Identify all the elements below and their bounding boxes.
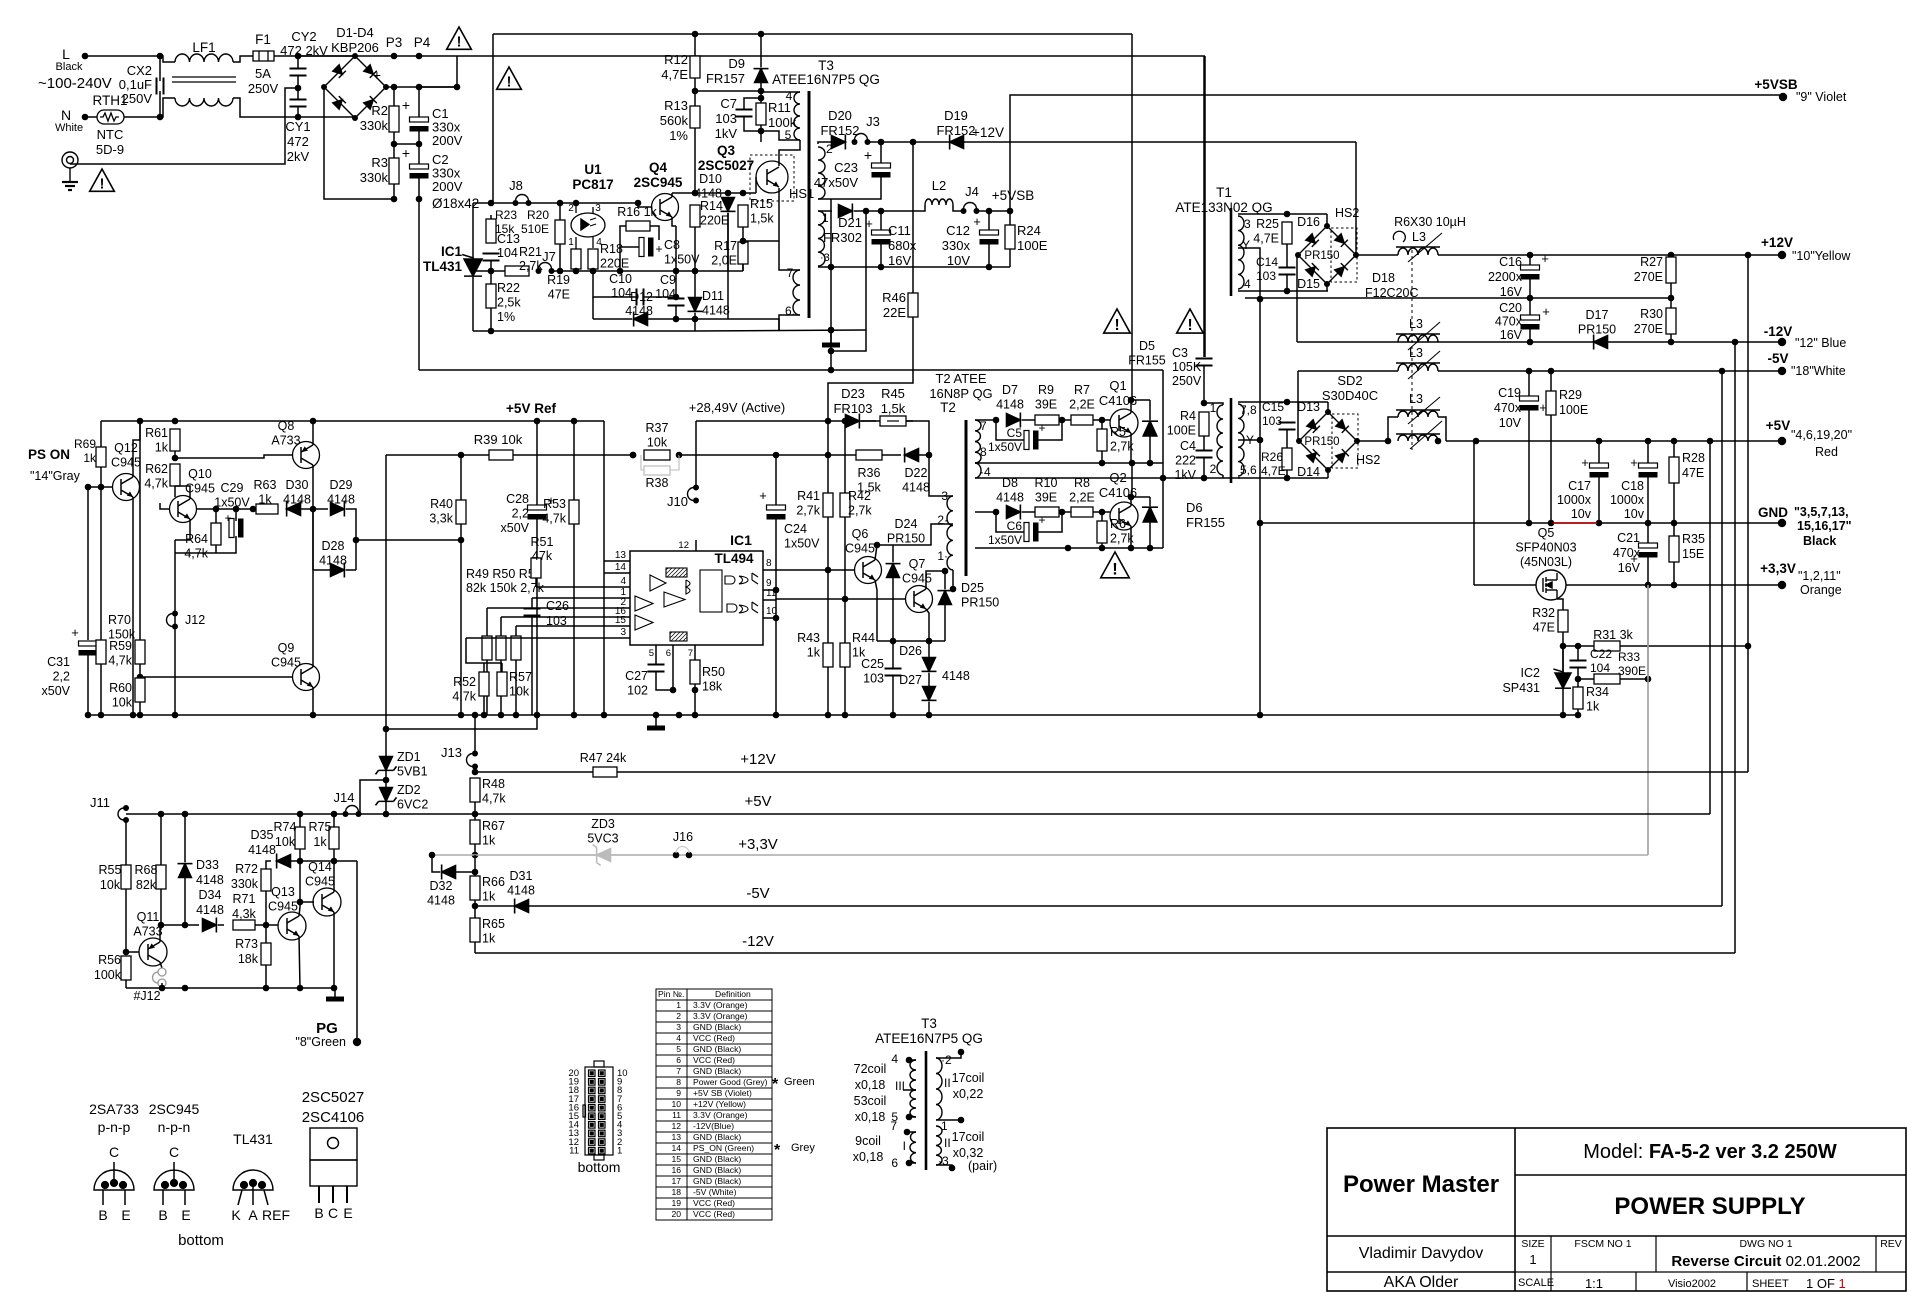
L3 arrow e [1410, 421, 1442, 449]
wire r73 [265, 925, 267, 943]
wire Q3 e to rail [743, 240, 779, 242]
wire q9 base [140, 676, 293, 678]
wire c16 [1529, 255, 1531, 265]
transistor Q11 [139, 938, 167, 966]
node PG out [353, 1038, 361, 1046]
wire c5 [996, 420, 1024, 440]
wire rail478 [975, 477, 1240, 479]
ground bar tl494 [647, 726, 665, 731]
wire vert 1205 [1204, 56, 1206, 357]
wire -5 corner [1721, 371, 1723, 906]
svg-text:·4: ·4 [980, 465, 991, 479]
lead tl431 ref [264, 1190, 268, 1205]
svg-text:C27102: C27102 [625, 669, 648, 698]
T3 detail winding II upper [936, 1058, 942, 1120]
svg-text:!: ! [1114, 317, 1119, 334]
fuse F1 [253, 51, 274, 61]
wire r50b [500, 660, 502, 715]
resistor R51b [531, 558, 541, 578]
wire R19 [575, 248, 577, 249]
wire r35b [1673, 562, 1675, 585]
svg-text:+: + [1038, 421, 1045, 435]
wire sec2 bot [818, 198, 831, 200]
wire r28 [1673, 441, 1675, 457]
lead 2sc945 e [184, 1190, 186, 1205]
capacitor C1 [410, 117, 429, 132]
wire r27b [1670, 283, 1672, 298]
svg-text:J12: J12 [185, 613, 205, 627]
wire c3b [1203, 366, 1205, 403]
jumper J11 [118, 805, 129, 823]
wire c17b [1598, 477, 1600, 523]
svg-text:GND (Black): GND (Black) [693, 1176, 741, 1186]
wire c29 v2 [216, 536, 236, 553]
wire d23 out [861, 420, 876, 422]
transistor Q14 [313, 888, 341, 916]
junction r33 out [1645, 676, 1652, 683]
wire r48b [474, 802, 476, 814]
svg-text:GND (Black): GND (Black) [693, 1066, 741, 1076]
resistor R66 [470, 876, 480, 900]
svg-text:+5V SB (Violet): +5V SB (Violet) [693, 1088, 752, 1098]
resistor R51 [511, 636, 521, 660]
junction q6 c [874, 542, 881, 549]
pin 3 stub [617, 637, 630, 639]
transformer T1 core lower [1230, 398, 1233, 483]
L3 arrow d [1408, 397, 1440, 424]
heatsink HS2 dashed lower [1332, 414, 1358, 468]
transistor Q7 [906, 586, 933, 613]
wire Q3 collector [779, 140, 800, 166]
svg-text:Visio2002: Visio2002 [1668, 1278, 1716, 1290]
diode D12 [634, 312, 648, 327]
earth ground [62, 152, 78, 190]
wire r42b [844, 517, 846, 599]
resistor R17 [738, 242, 748, 264]
wire r42 [844, 421, 846, 493]
pin 4 stub [617, 586, 630, 588]
transistor Q3 [756, 161, 788, 193]
svg-text:R5710k: R5710k [509, 670, 532, 699]
wire ch1 [975, 419, 996, 421]
wire R18b [592, 269, 594, 271]
wire gnd ext [1561, 714, 1578, 716]
wire base bus [672, 192, 756, 194]
wire r64 [215, 509, 217, 523]
svg-text:20: 20 [671, 1209, 681, 1219]
svg-text:Black: Black [1803, 534, 1836, 548]
svg-text:7: 7 [890, 1119, 897, 1133]
wire CX2 vert [159, 56, 161, 81]
svg-text:"9" Violet: "9" Violet [1796, 90, 1847, 104]
wire +5 corner [1709, 441, 1711, 814]
svg-text:11: 11 [569, 1145, 579, 1156]
wire bridge right [386, 86, 457, 88]
resistor R55 [121, 865, 131, 889]
wire CY2 [297, 56, 299, 68]
svg-text:+: + [402, 97, 410, 113]
wire c27 [655, 658, 657, 664]
wire C2 to primary return [418, 199, 420, 370]
wire Q4 base wire [638, 203, 652, 207]
svg-text:C: C [328, 1205, 338, 1221]
capacitor C20 [1521, 315, 1540, 330]
wire c31 wire [87, 487, 89, 640]
wire d32 left [432, 855, 440, 872]
capacitor C14 [1279, 268, 1296, 275]
wire r6b [1101, 543, 1103, 548]
wire R20 [559, 203, 561, 220]
wire y2 mid [1238, 439, 1260, 441]
junction bb [488, 328, 495, 335]
transformer T1 sec upper [1238, 216, 1244, 289]
pin 7 stub bottom [694, 645, 696, 658]
svg-text:#J12: #J12 [133, 989, 160, 1003]
junction r68 top [158, 811, 338, 818]
wire mid rail2 [552, 270, 676, 272]
wire r44 [844, 599, 846, 643]
package 2SC5027 TO220 [310, 1128, 357, 1186]
junction d27 [890, 712, 933, 719]
resistor R40 [456, 500, 466, 524]
pin 16 stub [617, 616, 630, 618]
resistor R18 [588, 249, 598, 269]
wire R14 bot [694, 227, 696, 271]
wire node91 [695, 90, 761, 92]
svg-text:NTC5D-9: NTC5D-9 [96, 127, 124, 157]
junction r74b [297, 899, 304, 906]
svg-text:R6882k: R6882k [135, 863, 158, 892]
wire r28b [1673, 483, 1675, 523]
svg-text:R3710k: R3710k [646, 421, 669, 450]
svg-text:R4622E: R4622E [882, 290, 906, 320]
junction row509 [213, 506, 257, 513]
capacitor C5 [1024, 431, 1039, 450]
T3 detail core [925, 1051, 928, 1170]
svg-text:R264,7E: R264,7E [1261, 450, 1286, 478]
svg-text:C: C [169, 1144, 179, 1160]
svg-text:~100-240V: ~100-240V [38, 75, 112, 92]
svg-text:-12V: -12V [742, 933, 774, 950]
shunt regulator IC2 SP431 [1552, 669, 1571, 688]
junction 831 [828, 264, 835, 374]
wire r69b [100, 467, 102, 487]
svg-text:*: * [772, 1076, 779, 1093]
wire rail455 [386, 454, 489, 456]
wire D12 rail [593, 318, 632, 320]
resistor R46 [908, 293, 918, 317]
resistor R75 [329, 827, 339, 849]
svg-text:D1-D4KBP206: D1-D4KBP206 [331, 25, 379, 55]
inductor L3 +5v upper [1398, 411, 1438, 417]
wire d27b [928, 702, 930, 715]
svg-text:1: 1 [1210, 401, 1217, 415]
svg-text:R5147k: R5147k [531, 535, 554, 563]
resistor R57 [497, 672, 507, 696]
wire c22b [1577, 668, 1579, 679]
wire q12 e [132, 497, 134, 715]
svg-text:L3: L3 [1412, 230, 1426, 244]
svg-text:L3: L3 [1409, 346, 1423, 360]
junction -12v [1527, 339, 1739, 346]
svg-text:IC1: IC1 [730, 532, 752, 548]
junction CY mid [295, 85, 302, 92]
wire R24b [1009, 249, 1011, 267]
resistor R67 [470, 820, 480, 844]
wire ch2b [1022, 511, 1035, 513]
wire D9b [760, 83, 762, 98]
resistor R10 [1035, 507, 1059, 517]
wire rail455 c [679, 454, 856, 456]
transistor Q2 [1110, 502, 1138, 530]
T3d pin7 [904, 1129, 911, 1136]
junction ref rail [137, 418, 317, 425]
wire R16 right [650, 226, 659, 240]
capacitor C18 [1639, 463, 1658, 478]
svg-text:J10: J10 [667, 494, 688, 509]
resistor R42 [840, 493, 850, 517]
wire j13 up [474, 715, 476, 753]
core LF1 [172, 76, 236, 78]
lead 2sa733 b [102, 1190, 104, 1205]
node L input [82, 53, 89, 60]
svg-text:+: + [864, 147, 872, 163]
wire C8 left [620, 226, 639, 247]
wire R3 bot [393, 184, 395, 199]
svg-text:12: 12 [678, 540, 689, 551]
lead tl431 a [252, 1183, 254, 1205]
wire q2c link [1131, 463, 1133, 497]
jumper #J12 grey [153, 968, 167, 987]
svg-text:T3: T3 [921, 1016, 937, 1031]
wire c5b [1038, 420, 1062, 440]
svg-text:J7: J7 [542, 249, 556, 264]
t3d III tap [903, 1089, 916, 1091]
svg-text:R361,5k: R361,5k [857, 466, 881, 495]
diode D5 [1142, 421, 1158, 436]
diode D22 [905, 448, 919, 463]
svg-text:!: ! [1112, 561, 1118, 579]
junction zd12 [383, 777, 390, 784]
wire Q3 emitter [778, 188, 780, 241]
wire D10 bot [727, 213, 729, 271]
svg-text:7,8: 7,8 [1240, 403, 1257, 417]
svg-text:L: L [62, 46, 70, 62]
svg-text:!: ! [507, 75, 512, 91]
svg-text:82k 150k 2,7k: 82k 150k 2,7k [466, 581, 545, 595]
junction 3v3 [1645, 582, 1678, 589]
wire r29b [1550, 415, 1552, 523]
resistor R59 [135, 640, 145, 664]
wire zd1 zd2 [385, 771, 387, 788]
connector pin table [656, 989, 772, 1220]
wire c20 [1529, 298, 1531, 315]
junction D9 bottom [758, 88, 765, 102]
resistor R33 [1594, 674, 1620, 684]
diode D30 [287, 502, 301, 517]
svg-text:!: ! [1187, 317, 1192, 334]
svg-text:VCC (Red): VCC (Red) [693, 1198, 735, 1208]
svg-text:1·: 1· [937, 549, 948, 563]
svg-text:R72330k: R72330k [231, 862, 259, 891]
junction r41 [825, 418, 832, 425]
wire r4 c4 [1203, 436, 1205, 450]
wire c18 [1647, 441, 1649, 463]
svg-text:L2: L2 [932, 178, 946, 193]
wire pin12 vert2 [695, 421, 697, 487]
red wire segment [1553, 522, 1597, 524]
resistor R37 [644, 450, 670, 460]
resistor R9 [1035, 415, 1059, 425]
wire -5v bottom rail [475, 905, 1722, 907]
diode D32 [442, 865, 456, 880]
wire r68 top [160, 814, 162, 865]
svg-text:ATEE16N7P5 QG: ATEE16N7P5 QG [875, 1031, 983, 1046]
wire j11 down [125, 820, 127, 952]
wire CY2 b [297, 76, 299, 99]
transformer T1 sec lower coil [1238, 404, 1244, 476]
wire q10 e2 [174, 540, 176, 613]
svg-text:C25103: C25103 [861, 657, 884, 686]
wire c24 [775, 455, 777, 505]
wire r36 out [882, 454, 901, 456]
wire e rail ext [675, 226, 677, 271]
svg-text:13: 13 [671, 1132, 681, 1142]
wire pin14b [604, 572, 617, 574]
capacitor C12 [980, 230, 999, 245]
svg-text:I: I [903, 1139, 906, 1153]
wire block bottom [473, 330, 695, 332]
resistor R29 [1546, 391, 1556, 415]
wire r25 c14 [1286, 244, 1288, 267]
wire c29 v [235, 509, 237, 521]
resistor R63 [256, 504, 278, 514]
wire r44b [844, 667, 846, 715]
svg-text:+: + [1541, 251, 1549, 266]
wire r43 [827, 570, 829, 643]
wire c13b [490, 261, 492, 271]
wire C12 [988, 211, 990, 230]
diode D26 [922, 658, 937, 672]
wire d26 wire [928, 641, 930, 657]
wire sec1 top [818, 210, 832, 212]
svg-text:Q4: Q4 [649, 160, 668, 175]
choke arc icon [1393, 231, 1405, 242]
svg-text:C22104: C22104 [1590, 647, 1612, 675]
t3d w4 [909, 1059, 916, 1061]
pin 8 stub right [763, 569, 776, 571]
junction C1C2 [391, 141, 423, 148]
junction mid2 [557, 268, 624, 275]
wire Q3 base [755, 177, 757, 193]
wire C1 top [418, 87, 420, 117]
svg-text:Q12C945: Q12C945 [111, 441, 141, 470]
wire r74 [299, 814, 301, 827]
svg-text:IC2: IC2 [1521, 666, 1541, 680]
junction -5v rail [472, 903, 479, 910]
wire d34 out [218, 924, 224, 926]
wire r68b [160, 889, 162, 925]
wire Y gnd vertical [1259, 299, 1261, 715]
wire r41 [827, 421, 829, 493]
wire vert866 [831, 211, 866, 351]
resistor R70 [96, 640, 106, 664]
wire r30 [1670, 298, 1672, 308]
svg-text:·2: ·2 [941, 1053, 952, 1067]
wire q2 e [1130, 526, 1132, 548]
wire pin11 wire [776, 598, 906, 600]
wire d32 [456, 871, 475, 873]
svg-text:1: 1 [568, 237, 574, 248]
wire bridge left down [324, 87, 394, 199]
warning triangle ac [90, 169, 115, 193]
svg-text:REF: REF [262, 1207, 290, 1223]
wire pin12 vert [695, 540, 697, 551]
svg-text:TL431: TL431 [423, 259, 463, 274]
wire r75 to q14 [333, 861, 335, 892]
svg-text:T1: T1 [1216, 185, 1232, 200]
wire +3,3v bottom rail [432, 854, 1648, 856]
wire t2 pri bot [952, 570, 954, 589]
svg-text:5: 5 [649, 648, 654, 659]
resistor R12 [690, 56, 700, 78]
capacitor C16 [1521, 265, 1540, 280]
svg-text:Q14C945: Q14C945 [305, 860, 335, 889]
capacitor CX2 [157, 78, 164, 95]
T3d pin5 [906, 1114, 913, 1121]
svg-text:S30D40C: S30D40C [1322, 388, 1378, 403]
resistor R22 [486, 284, 496, 308]
wire L2 out [953, 205, 963, 211]
junction d22 [926, 452, 933, 459]
svg-text:D18: D18 [1372, 271, 1395, 285]
svg-text:+5V: +5V [1766, 418, 1790, 433]
capacitor C8 [639, 238, 654, 257]
wire rail330 [695, 330, 866, 331]
wire c4b [1203, 458, 1205, 478]
junction j13 [472, 712, 479, 719]
junction aux12 [878, 139, 917, 146]
wire rail548 [975, 547, 1163, 549]
svg-text:R484,7k: R484,7k [482, 777, 506, 806]
svg-text:TL431: TL431 [233, 1131, 273, 1147]
svg-text:R714,3k: R714,3k [232, 892, 256, 921]
jumper J4 [961, 203, 980, 215]
junction r4 top [1201, 400, 1208, 407]
junction d35 row [297, 858, 338, 865]
wire t1sl top [1238, 401, 1328, 403]
wire -12v takeoff [1297, 255, 1298, 342]
pin 9 stub right [763, 589, 776, 591]
junction q11 e [158, 922, 165, 929]
svg-text:D27: D27 [899, 673, 922, 687]
wire ch2d [1093, 511, 1110, 513]
wire r66 [474, 855, 476, 876]
wire C10 [593, 271, 637, 297]
lead 2sa733 e [124, 1190, 126, 1205]
wire c27b [656, 672, 673, 690]
wire d6b [1149, 522, 1151, 548]
svg-text:"14"Gray: "14"Gray [30, 469, 81, 483]
svg-text:VCC (Red): VCC (Red) [693, 1033, 735, 1043]
svg-text:+: + [1542, 304, 1550, 319]
t3d w6 [909, 1162, 916, 1164]
svg-text:Ø18x42: Ø18x42 [432, 196, 479, 211]
svg-text:Power Good (Grey): Power Good (Grey) [693, 1077, 768, 1087]
T3 detail winding III upper [910, 1060, 916, 1090]
wire J4 out [977, 210, 1010, 212]
junction refrail [534, 418, 578, 425]
